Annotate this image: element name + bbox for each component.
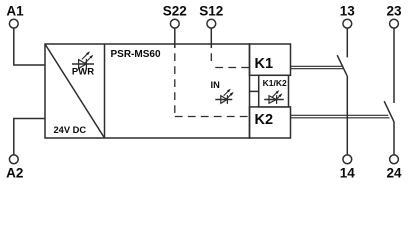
wire S22 into box [174, 28, 176, 48]
svg-text:S22: S22 [163, 4, 187, 19]
svg-text:24: 24 [386, 166, 402, 181]
svg-text:S12: S12 [199, 4, 223, 19]
K2 mechanical linkage double line [291, 115, 390, 118]
svg-text:24V DC: 24V DC [54, 125, 87, 135]
terminal 13 [343, 19, 352, 28]
LED K1/K2 [264, 90, 284, 104]
relay K2 box [250, 107, 291, 138]
svg-text:K1: K1 [255, 56, 274, 72]
wire A2 to box [14, 119, 45, 155]
power supply diagonal [45, 44, 105, 138]
dashed S12 drop [210, 48, 212, 63]
terminal 23 [390, 19, 399, 28]
dashed input region bottom edge [175, 116, 250, 118]
terminal 14 [343, 155, 352, 164]
terminal A2 [9, 155, 18, 164]
dashed S12 horizontal to K1 [211, 67, 249, 69]
svg-text:K1/K2: K1/K2 [263, 78, 287, 88]
wire S12 into box [210, 28, 212, 48]
wire A1 to box [14, 28, 45, 65]
LED PWR [72, 51, 94, 69]
terminal S22 [170, 19, 179, 28]
svg-text:PSR-MS60: PSR-MS60 [111, 49, 161, 60]
svg-text:A1: A1 [6, 4, 24, 19]
svg-text:14: 14 [340, 166, 356, 181]
contact 13-14 [337, 28, 347, 155]
wire to K1/K2 LED box [250, 90, 259, 92]
LED IN [215, 89, 233, 104]
svg-text:PWR: PWR [72, 67, 94, 78]
terminal A1 [9, 19, 18, 28]
terminal S12 [207, 19, 216, 28]
power supply divider [104, 44, 106, 138]
svg-text:23: 23 [386, 4, 402, 19]
svg-text:13: 13 [340, 4, 356, 19]
dashed input region left edge (S22) [174, 48, 176, 117]
K1 mechanical linkage double line [291, 66, 344, 68]
svg-text:A2: A2 [6, 166, 23, 181]
svg-text:K2: K2 [255, 112, 274, 128]
relay K1 box [250, 44, 291, 75]
K1/K2 LED box [259, 75, 289, 107]
svg-text:IN: IN [211, 80, 221, 90]
contact 23-24 [384, 28, 394, 155]
terminal 24 [390, 155, 399, 164]
main module box [45, 44, 250, 138]
